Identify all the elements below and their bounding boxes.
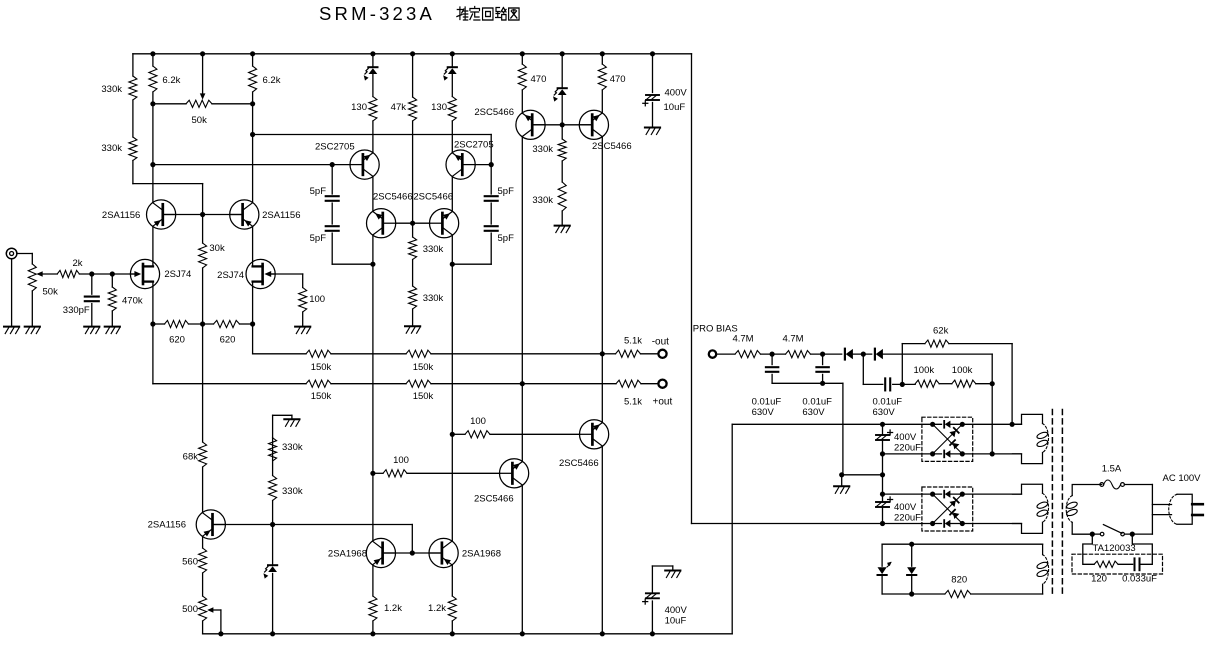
potentiometer 50k volume	[28, 264, 36, 291]
wire 5pF column left	[331, 165, 333, 194]
bridge B2 diode bottom	[943, 520, 945, 527]
transistor Q5 2SC2705 left	[350, 150, 379, 179]
wire	[1118, 563, 1133, 565]
svg-text:62k: 62k	[933, 326, 949, 337]
potentiometer 500	[199, 596, 207, 621]
capacitor 5pF lower-left	[326, 225, 339, 227]
node 100 takeoff left	[370, 471, 375, 476]
wire 62k row	[902, 343, 925, 345]
pot 500 wiper to bottom rail	[220, 610, 222, 634]
resistor 1.2k right	[451, 565, 453, 596]
svg-text:400V: 400V	[894, 502, 917, 513]
svg-text:30k: 30k	[209, 243, 225, 254]
svg-text:50k: 50k	[192, 115, 208, 126]
svg-text:AC 100V: AC 100V	[1163, 473, 1202, 484]
resistor 2k	[57, 270, 79, 277]
wire left 6.2k column	[152, 54, 154, 66]
node LED loop bottom	[909, 591, 914, 596]
svg-text:100: 100	[393, 455, 409, 466]
node bridge B2	[960, 521, 965, 526]
pot 50k wiper arrow	[38, 273, 57, 275]
wire 130 column right	[451, 54, 453, 66]
capacitor 0.01uF second	[822, 354, 824, 365]
wire jack ground stem	[11, 259, 13, 327]
svg-text:68k: 68k	[183, 452, 199, 463]
node bridge2 bottom left	[880, 521, 885, 526]
svg-text:630V: 630V	[802, 407, 825, 418]
resistor 130 left	[369, 97, 377, 122]
node top rail junction	[370, 51, 375, 56]
svg-text:470k: 470k	[122, 296, 143, 307]
svg-text:120: 120	[1091, 574, 1107, 585]
wire plug neck top	[1152, 504, 1171, 506]
svg-text:100: 100	[470, 416, 486, 427]
wire 100 to ground	[302, 312, 304, 327]
transistor Q15 2SA1968 right	[429, 538, 458, 567]
node pot wiper rail	[200, 51, 205, 56]
node top rail junction	[520, 51, 525, 56]
node zener column top	[270, 522, 275, 527]
wire mid-diode drop to series cap	[862, 354, 864, 384]
resistor 130 right	[448, 97, 456, 122]
ground upper mid	[555, 225, 570, 227]
svg-text:5pF: 5pF	[498, 233, 515, 244]
resistor 6.2k right	[249, 66, 257, 92]
wire to bridge1 top	[732, 423, 882, 425]
resistor 470 left	[518, 64, 526, 90]
transistor Q3 2SA1156 left	[147, 200, 176, 229]
svg-text:4.7M: 4.7M	[732, 334, 753, 345]
wire bottom rail	[203, 633, 733, 635]
svg-text:2SJ74: 2SJ74	[164, 269, 191, 280]
svg-text:6.2k: 6.2k	[162, 75, 180, 86]
svg-text:330k: 330k	[101, 84, 122, 95]
svg-text:470: 470	[610, 74, 626, 85]
node top rail junction	[650, 51, 655, 56]
svg-text:330k: 330k	[423, 244, 444, 255]
ground bias filter	[834, 485, 849, 487]
transistor Q6 2SC5466 mid-left	[367, 209, 396, 238]
wire jack to volume	[17, 253, 32, 255]
resistor 100k second	[952, 380, 976, 387]
ground 10uF bottom	[665, 570, 680, 572]
svg-text:2SC5466: 2SC5466	[373, 192, 413, 203]
node 1968 bases	[410, 550, 415, 555]
wire diode out	[883, 353, 992, 355]
svg-text:330k: 330k	[532, 144, 553, 155]
svg-text:620: 620	[220, 335, 236, 346]
svg-text:10uF: 10uF	[665, 616, 687, 627]
node ground spur	[839, 472, 844, 477]
node -out tap	[600, 351, 605, 356]
svg-text:2SC5466: 2SC5466	[474, 494, 514, 505]
wire base Q7	[475, 164, 491, 166]
svg-text:+out: +out	[653, 397, 673, 408]
resistor 6.2k left	[149, 66, 157, 92]
wire column below 264	[372, 264, 374, 541]
svg-text:2SC5466: 2SC5466	[413, 192, 453, 203]
wire top supply rail	[133, 53, 692, 55]
svg-text:620: 620	[169, 335, 185, 346]
capacitor C 220uF 400V lower	[876, 501, 889, 503]
LED D7	[878, 567, 887, 574]
resistor 5.1k -out	[602, 353, 615, 355]
wire 330k chain column	[132, 54, 134, 76]
wire switch row	[1072, 533, 1100, 535]
node 6.2k right bottom	[250, 101, 255, 106]
svg-text:2SA1968: 2SA1968	[462, 549, 501, 560]
node top rail junction	[600, 51, 605, 56]
resistor 150k row2 right	[406, 380, 431, 387]
ground 330k mid	[405, 325, 420, 327]
wire reservoir column	[882, 424, 884, 435]
transistor Q11 2SC5466 lower-left	[499, 459, 528, 488]
node bridge B2	[960, 492, 965, 497]
svg-text:5.1k: 5.1k	[624, 336, 642, 347]
node 470k	[110, 271, 115, 276]
node bridge B1	[930, 422, 935, 427]
svg-text:130: 130	[351, 102, 367, 113]
wire LED loop top	[882, 543, 1043, 545]
wire +out feedback row	[153, 383, 306, 385]
resistor 100 gate	[299, 288, 307, 313]
svg-text:0.01uF: 0.01uF	[752, 397, 782, 408]
bridge rectifier B1 box	[922, 417, 973, 461]
bridge B2 diode top	[943, 491, 945, 498]
fuse 1.5A	[1100, 483, 1104, 487]
transformer secondary winding S1	[1013, 414, 1043, 424]
wire 30k column	[202, 184, 204, 243]
transistor Q12 2SC5466 lower-right	[580, 420, 609, 449]
transistor Q4 2SA1156 right	[230, 200, 259, 229]
node 620 left	[150, 321, 155, 326]
svg-text:400V: 400V	[894, 432, 917, 443]
node x=252.6 y=134.5	[250, 132, 255, 137]
zener D3 variable	[558, 87, 567, 89]
svg-text:SRM-323A: SRM-323A	[319, 3, 435, 24]
svg-text:100: 100	[309, 294, 325, 305]
svg-text:0.033uF: 0.033uF	[1122, 574, 1157, 585]
switch S1 contacts	[1100, 532, 1104, 536]
wire zener column	[272, 438, 274, 476]
node mid reservoir	[880, 472, 885, 477]
svg-text:2k: 2k	[72, 258, 82, 269]
svg-text:0.01uF: 0.01uF	[873, 397, 903, 408]
resistor 560	[199, 548, 207, 573]
wire	[939, 383, 952, 385]
svg-text:1.2k: 1.2k	[384, 603, 402, 614]
node top rail junction	[150, 51, 155, 56]
wire 470 column left	[521, 54, 523, 64]
wire to 2SC2705 base node	[153, 164, 332, 166]
wire LED loop bottom	[882, 593, 945, 595]
node cap2 bottom	[820, 381, 825, 386]
wire -out feedback row	[253, 353, 306, 355]
ground jack	[4, 326, 19, 328]
node 2SC2705 left base	[330, 162, 335, 167]
zener D1 variable	[368, 66, 377, 68]
svg-text:50k: 50k	[43, 287, 59, 298]
svg-text:500: 500	[182, 604, 198, 615]
capacitor 5pF upper-right	[485, 195, 498, 197]
svg-text:330k: 330k	[532, 195, 553, 206]
svg-text:4.7M: 4.7M	[782, 334, 803, 345]
resistor 100 lower-right	[465, 431, 490, 438]
bridge B1 bottom line	[883, 453, 942, 455]
wire mid zener column	[561, 54, 563, 87]
terminal +out	[658, 380, 666, 388]
wire to right 2SC2705 base node	[253, 134, 492, 136]
title kanji 推定回路図	[457, 7, 519, 21]
node 330pF	[89, 271, 94, 276]
node 2SC2705 right base	[489, 162, 494, 167]
svg-text:330k: 330k	[282, 442, 303, 453]
svg-text:-out: -out	[652, 337, 669, 348]
node +out tap	[520, 381, 525, 386]
resistor 620 left	[165, 320, 189, 327]
bridge B1 top line	[883, 423, 942, 425]
svg-text:2SC5466: 2SC5466	[559, 458, 599, 469]
resistor 47k	[409, 97, 417, 121]
transformer core dashed lines	[1051, 410, 1053, 595]
svg-text:150k: 150k	[413, 362, 434, 373]
svg-text:560: 560	[182, 557, 198, 568]
resistor 30k	[199, 243, 207, 268]
svg-text:220uF: 220uF	[894, 513, 921, 524]
wire base row upper 2SC5466	[532, 124, 592, 126]
node LED loop top	[909, 542, 914, 547]
svg-text:5pF: 5pF	[498, 186, 515, 197]
resistor 4.7M first	[735, 351, 761, 358]
resistor 330k sink2	[269, 476, 277, 501]
wire diode column	[911, 544, 913, 566]
svg-text:6.2k: 6.2k	[263, 75, 281, 86]
capacitor 0.01uF series	[884, 378, 886, 390]
zener D2 variable	[448, 66, 457, 68]
svg-text:5.1k: 5.1k	[624, 397, 642, 408]
node 10uF rail	[650, 631, 655, 636]
AC plug body	[1177, 494, 1192, 524]
bridge B2 diode diag upper	[949, 501, 955, 507]
bridge B2 bottom line	[883, 523, 942, 525]
switch S1 lever	[1103, 525, 1122, 534]
transistor Q10 2SC5466 upper-right	[579, 110, 608, 139]
wire fuse to corner	[1124, 484, 1152, 486]
svg-text:130: 130	[431, 102, 447, 113]
svg-text:220uF: 220uF	[894, 443, 921, 454]
wire base Q8	[413, 222, 430, 224]
node bridge1 bottom left	[880, 451, 885, 456]
node 1.2k right rail	[450, 631, 455, 636]
node snubber right	[1130, 532, 1135, 537]
resistor 120	[1094, 561, 1118, 567]
wire right 6.2k column	[252, 54, 254, 66]
svg-text:5pF: 5pF	[310, 186, 327, 197]
transistor Q1 2SJ74 left	[130, 259, 159, 288]
bridge B1 diagonal TL-BR	[933, 424, 963, 454]
bridge B1 diagonal BL-TR	[933, 424, 963, 454]
node bias 1	[770, 352, 775, 357]
ground 330k hook	[284, 418, 299, 420]
wire right JFET gate to 100	[271, 273, 303, 275]
node bridge B1	[960, 422, 965, 427]
svg-text:0.01uF: 0.01uF	[802, 397, 832, 408]
svg-text:400V: 400V	[665, 88, 688, 99]
wire right frame vertical	[691, 54, 693, 524]
wire 47k column	[412, 54, 414, 97]
node bridge1 bottom right feed	[990, 451, 995, 456]
ground 470k	[105, 326, 120, 328]
ground 100	[295, 326, 310, 328]
node 2SA1156 bases	[200, 212, 205, 217]
svg-text:PRO BIAS: PRO BIAS	[693, 324, 738, 335]
resistor 4.7M second	[786, 351, 811, 358]
svg-text:630V: 630V	[873, 407, 896, 418]
wire y134 down to right base	[490, 135, 492, 165]
svg-text:330pF: 330pF	[63, 305, 90, 316]
resistor 330k upper-mid 2	[558, 182, 566, 211]
node 5pF bottom left	[370, 262, 375, 267]
transistor Q2 2SJ74 right	[246, 259, 275, 288]
capacitor C 10uF 400V bottom	[651, 601, 653, 634]
node x=152.9 y=164.6	[150, 162, 155, 167]
bridge B1 diode bottom	[943, 451, 945, 458]
wire bottom rail riser	[731, 424, 733, 634]
svg-text:150k: 150k	[413, 391, 434, 402]
wire base row 2SA1156	[163, 214, 243, 216]
svg-text:2SC5466: 2SC5466	[474, 107, 514, 118]
resistor 330k mid1	[409, 237, 417, 260]
svg-text:330k: 330k	[282, 486, 303, 497]
node bridge B2	[930, 492, 935, 497]
wire base Q6	[396, 222, 413, 224]
wire	[761, 353, 786, 355]
node bridge2 top left	[880, 492, 885, 497]
node bridge B2	[930, 521, 935, 526]
resistor 100k first	[915, 380, 939, 387]
node bias 2	[820, 352, 825, 357]
ground 330pF	[84, 326, 99, 328]
resistor 470k	[111, 274, 113, 287]
resistor 330k upper-mid 1	[558, 139, 566, 161]
pot 50k wiper from top rail	[202, 54, 204, 95]
wire 130 column left	[372, 54, 374, 66]
diode D8	[907, 567, 916, 574]
snubber box dashed	[1072, 554, 1163, 574]
node bridge1 62k tap	[1010, 422, 1015, 427]
resistor 820	[945, 590, 971, 597]
bridge B2 diagonal TL-BR	[933, 494, 963, 523]
wire ground spur	[842, 474, 883, 476]
svg-text:400V: 400V	[665, 605, 688, 616]
svg-text:2SJ74: 2SJ74	[217, 270, 244, 281]
node follower left rail	[520, 631, 525, 636]
resistor 5.1k +out	[616, 380, 641, 387]
wire 100 to lower-left base	[373, 472, 383, 474]
diode D5	[844, 349, 846, 360]
wire 5pF column right	[490, 165, 492, 194]
resistor 150k row1 left	[306, 350, 331, 357]
bridge B1 diode diag upper	[949, 431, 955, 437]
wire snubber right leg	[1132, 534, 1152, 564]
svg-text:330k: 330k	[423, 293, 444, 304]
transistor Q13 2SA1156 bottom	[196, 510, 225, 539]
ground 10uF top	[645, 127, 660, 129]
wire base Q5	[332, 164, 350, 166]
AC plug prong top	[1192, 503, 1203, 506]
capacitor C 10uF 400V top	[652, 54, 654, 93]
svg-text:470: 470	[531, 74, 547, 85]
bridge B2 diode diag lower	[953, 513, 959, 519]
svg-text:2SC2705: 2SC2705	[315, 142, 355, 153]
capacitor C 220uF 400V upper	[876, 434, 889, 436]
wire 62k riser	[901, 344, 903, 385]
capacitor 5pF upper-left	[326, 195, 339, 197]
transistor Q9 2SC5466 upper-left	[516, 110, 545, 139]
svg-text:2SA1968: 2SA1968	[328, 549, 367, 560]
node bridge B1	[960, 451, 965, 456]
node upper 2SC5466 bases	[560, 122, 565, 127]
node 1.2k left rail	[370, 631, 375, 636]
node 100k right	[990, 381, 995, 386]
node 620 mid	[200, 321, 205, 326]
node 620 right	[250, 321, 255, 326]
transistor Q8 2SC5466 mid-right	[430, 209, 459, 238]
bridge B1 diode top	[943, 421, 945, 428]
capacitor 330pF	[91, 274, 93, 294]
bridge B2 top line	[883, 493, 942, 495]
svg-text:630V: 630V	[752, 407, 775, 418]
resistor 330k mid2	[409, 286, 417, 309]
svg-text:2SA1156: 2SA1156	[262, 210, 300, 221]
resistor 68k	[199, 442, 207, 467]
wire base row to 1968 bases	[213, 524, 413, 526]
svg-text:1.5A: 1.5A	[1102, 464, 1122, 475]
transformer secondary winding S2	[1013, 484, 1043, 494]
terminal -out	[658, 350, 666, 358]
capacitor 0.033uF	[1134, 558, 1136, 570]
wire column below 264 right	[451, 264, 453, 541]
wire 470 column right	[601, 54, 603, 64]
transistor Q14 2SA1968 left	[366, 538, 395, 567]
resistor 330k sink1	[269, 438, 277, 461]
svg-text:150k: 150k	[311, 391, 332, 402]
wire 100 to lower-right base	[452, 433, 465, 435]
wire snubber left leg	[1083, 534, 1094, 564]
wire 2k to gate	[79, 273, 134, 275]
resistor 620 right	[214, 320, 240, 327]
wire 330k chain to 30k column	[133, 183, 203, 185]
wire volume to ground	[31, 291, 33, 327]
resistor R 330k upper	[129, 76, 137, 100]
bridge B1 diode diag lower	[953, 443, 959, 449]
bridge B2 diagonal BL-TR	[933, 494, 963, 523]
svg-text:820: 820	[951, 575, 967, 586]
transistor Q7 2SC2705 right	[446, 150, 475, 179]
wire 620 row	[153, 323, 165, 325]
wire	[811, 353, 842, 355]
wire tail column down	[202, 324, 204, 442]
svg-text:TA120033: TA120033	[1093, 543, 1136, 554]
node series cap out	[900, 382, 905, 387]
node top rail junction	[560, 51, 565, 56]
node 6.2k left bottom	[150, 101, 155, 106]
node 500 wiper	[218, 631, 223, 636]
wire to bridge2 bottom	[692, 523, 883, 525]
node bridge B1	[930, 451, 935, 456]
node 100 takeoff right	[450, 432, 455, 437]
wire LED loop left	[881, 544, 883, 566]
